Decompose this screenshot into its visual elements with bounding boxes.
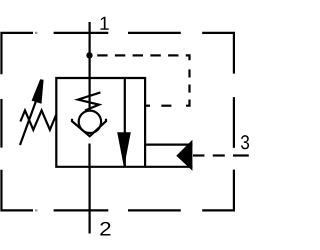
label 2	[100, 222, 110, 236]
label 1	[101, 17, 109, 30]
pilot line bottom run (dashed, into valve body)	[146, 105, 171, 107]
stem below seat	[88, 144, 90, 167]
pilot triangle at port 3	[176, 140, 192, 171]
label 3	[241, 135, 249, 149]
port 3 dashed pilot line	[193, 154, 249, 156]
poppet spring	[78, 92, 100, 110]
component enclosure bottom edge (dashed)	[35, 209, 181, 211]
port 1 line	[88, 22, 90, 78]
port 2 line	[88, 167, 90, 234]
component enclosure top edge (dashed)	[1, 33, 233, 74]
pilot line top run (dashed, from node to corner)	[97, 55, 189, 60]
valve seat	[72, 119, 106, 137]
pilot line right run (dashed)	[186, 69, 190, 105]
adjustable spring	[20, 110, 56, 129]
component enclosure right edge (dashed)	[202, 97, 234, 210]
flow arrowhead	[117, 132, 131, 167]
main line through poppet	[88, 78, 90, 110]
check ball	[79, 111, 101, 133]
valve body envelope	[56, 78, 145, 167]
adjustment arrow shaft	[20, 101, 36, 145]
junction node dot	[86, 52, 92, 58]
port 3 channel top line	[145, 144, 192, 146]
port 3 channel bottom line	[145, 166, 192, 168]
adjustment arrowhead	[32, 79, 44, 104]
component enclosure left edge (dashed)	[1, 99, 33, 210]
flow path line	[124, 78, 126, 167]
